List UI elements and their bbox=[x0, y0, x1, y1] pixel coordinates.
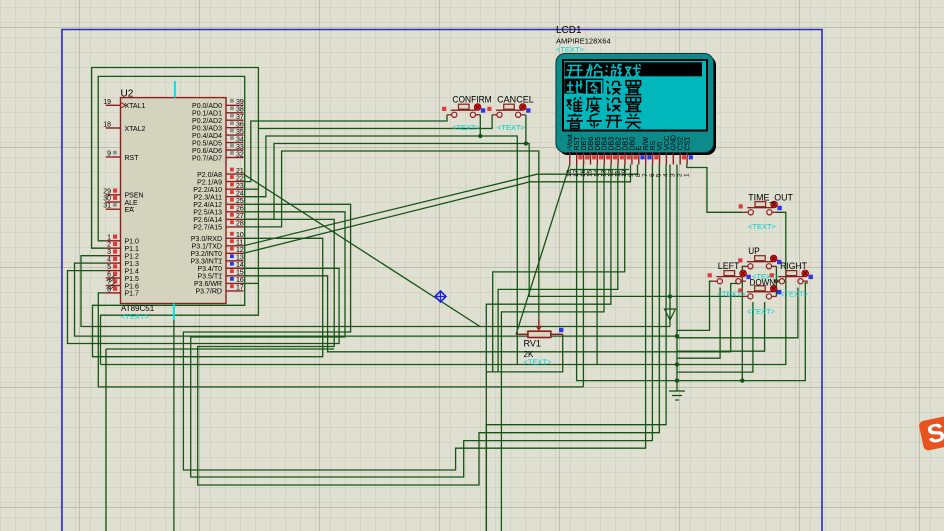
wire filler X2 bbox=[677, 302, 753, 372]
svg-text:9: 9 bbox=[107, 151, 111, 158]
ground symbol bbox=[669, 391, 685, 400]
svg-text:P1.5: P1.5 bbox=[125, 276, 140, 283]
wire LCD RST to RIGHT button bbox=[577, 165, 808, 381]
svg-text:P2.4/A12: P2.4/A12 bbox=[193, 202, 222, 209]
LCD pin 17 RST bbox=[573, 136, 583, 177]
svg-text:11: 11 bbox=[236, 240, 243, 247]
wire LCD DB4 down bbox=[501, 165, 604, 531]
svg-text:17: 17 bbox=[236, 285, 244, 292]
svg-text:P1.1: P1.1 bbox=[125, 246, 140, 253]
svg-text:P3.0/RXD: P3.0/RXD bbox=[191, 236, 222, 243]
svg-text:P2.0/A8: P2.0/A8 bbox=[197, 172, 222, 179]
LCD pin 15 DB6 bbox=[587, 137, 597, 177]
svg-text:P2.7/A15: P2.7/A15 bbox=[193, 225, 222, 232]
wire P2.2 stub jog bbox=[244, 188, 259, 190]
wire LCD DB7 down bbox=[582, 165, 584, 387]
junction RIGHT button terminal bbox=[774, 279, 778, 283]
pin 32 P0.7/AD7 bbox=[192, 151, 244, 162]
svg-text:39: 39 bbox=[236, 99, 244, 106]
svg-text:P0.3/AD3: P0.3/AD3 bbox=[192, 126, 222, 133]
svg-text:29: 29 bbox=[103, 188, 111, 195]
switch CANCEL push button bbox=[487, 95, 534, 133]
svg-text:ALE: ALE bbox=[125, 200, 139, 207]
pin 28 P2.7/A15 bbox=[193, 220, 244, 231]
svg-text:13: 13 bbox=[236, 255, 244, 262]
svg-text:<TEXT>: <TEXT> bbox=[718, 290, 747, 299]
wire P2.6 to DOWN button bbox=[244, 144, 744, 297]
pin 24 P2.3/A11 bbox=[194, 190, 244, 201]
wire LCD DB5 riser bbox=[596, 165, 598, 365]
svg-text:P1.0: P1.0 bbox=[125, 239, 140, 246]
wire P1.3 to ground column bbox=[75, 263, 678, 336]
wire short below LCD bbox=[570, 169, 629, 171]
pin 12 P3.2/INT0 bbox=[190, 247, 243, 258]
pin 26 P2.5/A13 bbox=[193, 205, 244, 216]
LCD pin 4 VCC bbox=[663, 136, 671, 177]
pin 6 P1.5 bbox=[106, 272, 139, 283]
LCD pin 8 E bbox=[635, 146, 645, 178]
svg-text:CS1: CS1 bbox=[685, 137, 692, 151]
pin 3 P1.2 bbox=[106, 249, 139, 260]
svg-text:1: 1 bbox=[683, 173, 690, 177]
LCD pin 12 DB3 bbox=[607, 137, 617, 177]
wire P2.7 to RV1 wiper bbox=[244, 151, 539, 319]
svg-text:P1.6: P1.6 bbox=[125, 283, 140, 290]
LCD pin 1 CS1 bbox=[683, 137, 693, 177]
svg-text:<TEXT>: <TEXT> bbox=[497, 123, 526, 132]
svg-text:38: 38 bbox=[236, 107, 244, 114]
svg-text:P1.2: P1.2 bbox=[125, 254, 140, 261]
svg-text:LCD1: LCD1 bbox=[556, 25, 582, 36]
svg-text:P2.3/A11: P2.3/A11 bbox=[194, 195, 222, 202]
wire from U2 pin20 GND down bbox=[173, 304, 175, 531]
pin 16 P3.6/WR bbox=[194, 277, 244, 288]
switch CONFIRM push button bbox=[442, 95, 492, 133]
pin 23 P2.2/A10 bbox=[193, 183, 244, 194]
LCD pin 16 DB7 bbox=[580, 137, 590, 177]
pin 29 PSEN bbox=[103, 188, 143, 199]
svg-text:31: 31 bbox=[103, 203, 111, 210]
wire horizontal mid bbox=[101, 364, 678, 366]
watermark S logo bbox=[918, 415, 944, 451]
wire RV1 right drop bbox=[486, 334, 562, 372]
wire P3.6 stub jog bbox=[244, 282, 259, 284]
LCD pin 5 V0 bbox=[656, 142, 664, 177]
wire P2.3 drop bbox=[244, 136, 518, 365]
pin 9 RST bbox=[106, 151, 139, 162]
resistor RV1 2K potentiometer bbox=[516, 319, 563, 367]
pin 15 P3.5/T1 bbox=[197, 269, 243, 280]
LCD pin 11 DB2 bbox=[614, 137, 624, 177]
wire filler X3 bbox=[677, 302, 765, 351]
LCD pin 6 RS bbox=[649, 140, 659, 177]
wire LCD DB1 down bbox=[493, 165, 625, 372]
pin 19 XTAL1 bbox=[103, 99, 145, 110]
wire TIME_OUT.R down bbox=[677, 212, 786, 364]
svg-text:22: 22 bbox=[236, 175, 244, 182]
svg-text:TIME_OUT: TIME_OUT bbox=[748, 193, 793, 204]
svg-text:1: 1 bbox=[107, 234, 111, 241]
LCD pin 9 DB0 bbox=[628, 137, 638, 177]
pin 31 EA bbox=[103, 203, 134, 214]
svg-text:P0.7/AD7: P0.7/AD7 bbox=[192, 155, 222, 162]
pin 37 P0.2/AD2 bbox=[192, 114, 244, 125]
switch TIME_OUT push button bbox=[739, 193, 793, 232]
pin 11 P3.1/TXD bbox=[192, 239, 244, 250]
svg-text:6: 6 bbox=[107, 272, 111, 279]
wire P3.2 diagonal to LCD DB0 bbox=[244, 165, 631, 254]
pin 25 P2.4/A12 bbox=[193, 198, 244, 209]
svg-text:P3.5/T1: P3.5/T1 bbox=[197, 274, 222, 281]
wire UP.R to DOWN.R bbox=[775, 266, 777, 296]
switch UP push button bbox=[738, 246, 781, 281]
svg-text:19: 19 bbox=[103, 99, 111, 106]
svg-text:35: 35 bbox=[236, 129, 244, 136]
svg-text:P0.4/AD4: P0.4/AD4 bbox=[192, 133, 222, 140]
svg-text:7: 7 bbox=[107, 279, 111, 286]
svg-text:P3.6/WR: P3.6/WR bbox=[194, 281, 222, 288]
wire LCD CS1 to TIME_OUT bbox=[687, 165, 744, 213]
wire CANCEL.R drop bbox=[525, 115, 527, 144]
LCD LCD1 AMPIRE128X64 bbox=[556, 25, 716, 155]
svg-text:U2: U2 bbox=[121, 88, 134, 99]
svg-text:28: 28 bbox=[236, 221, 244, 228]
svg-text:P0.6/AD6: P0.6/AD6 bbox=[192, 148, 222, 155]
svg-text:4: 4 bbox=[107, 257, 111, 264]
wire P3.1 diagonal to LCD E bbox=[244, 165, 638, 246]
wire P1.2 horizontal to node bbox=[81, 256, 670, 327]
svg-text:16: 16 bbox=[236, 277, 244, 284]
LCD pin 13 DB4 bbox=[601, 137, 611, 177]
svg-text:5: 5 bbox=[107, 264, 111, 271]
pin 35 P0.4/AD4 bbox=[192, 129, 244, 140]
LCD pin 7 R/W bbox=[642, 137, 652, 178]
wire CONFIRM.R drop bbox=[479, 115, 481, 136]
svg-text:RIGHT: RIGHT bbox=[780, 261, 807, 272]
svg-text:DOWN: DOWN bbox=[750, 277, 776, 288]
svg-text:CANCEL: CANCEL bbox=[497, 95, 534, 106]
junction on ground-arrow net bbox=[668, 294, 672, 298]
svg-text:32: 32 bbox=[236, 151, 244, 158]
svg-text:33: 33 bbox=[236, 144, 244, 151]
svg-text:3: 3 bbox=[107, 249, 111, 256]
svg-text:30: 30 bbox=[103, 196, 111, 203]
svg-text:RV1: RV1 bbox=[524, 339, 541, 349]
junction below CANCEL bbox=[524, 141, 528, 145]
pin 18 XTAL2 bbox=[103, 122, 145, 133]
pin 36 P0.3/AD3 bbox=[192, 121, 244, 132]
wire LCD DB3 down bbox=[486, 165, 611, 531]
svg-text:23: 23 bbox=[236, 183, 244, 190]
svg-text:21: 21 bbox=[236, 168, 244, 175]
svg-text:P1.7: P1.7 bbox=[125, 291, 140, 298]
svg-text:37: 37 bbox=[236, 114, 244, 121]
wire filler X1 bbox=[677, 288, 720, 359]
svg-text:<TEXT>: <TEXT> bbox=[747, 307, 776, 316]
wire P2.1 to CONFIRM bbox=[244, 115, 448, 182]
pin 7 P1.6 bbox=[106, 279, 139, 290]
LCD pin 2 CS2 bbox=[676, 137, 686, 177]
svg-text:<TEXT>: <TEXT> bbox=[780, 290, 809, 299]
svg-text:P3.2/INT0: P3.2/INT0 bbox=[190, 251, 222, 258]
wire LCD DB2 down bbox=[498, 165, 618, 372]
pin 21 P2.0/A8 bbox=[197, 168, 244, 179]
pin 34 P0.5/AD5 bbox=[192, 136, 244, 147]
svg-text:P0.2/AD2: P0.2/AD2 bbox=[192, 118, 222, 125]
pin 33 P0.6/AD6 bbox=[192, 144, 244, 155]
wire LEFT.L down bbox=[677, 281, 712, 330]
svg-text:<TEXT>: <TEXT> bbox=[524, 358, 553, 367]
pin 1 P1.0 bbox=[106, 234, 139, 245]
switch DOWN push button bbox=[738, 277, 781, 316]
wire P2.5 to LCD RS bbox=[191, 165, 653, 478]
svg-text:34: 34 bbox=[236, 136, 244, 143]
wire to CANCEL bbox=[258, 115, 492, 129]
svg-text:8: 8 bbox=[107, 286, 111, 293]
wire filler X4 bbox=[677, 288, 798, 338]
pin 8 P1.7 bbox=[106, 286, 139, 297]
switch LEFT push button bbox=[708, 261, 751, 299]
wire P1.1 over top, down right column bbox=[92, 68, 259, 365]
pin 38 P0.1/AD1 bbox=[192, 106, 244, 117]
wire LCD -Vout diagonal to RV1 bbox=[516, 165, 570, 335]
svg-text:P2.2/A10: P2.2/A10 bbox=[193, 187, 222, 194]
svg-text:18: 18 bbox=[103, 122, 111, 129]
wire UP.L down bbox=[741, 266, 744, 380]
svg-text:RST: RST bbox=[125, 155, 140, 162]
LCD pin 3 GND bbox=[670, 135, 678, 177]
svg-text:P0.1/AD1: P0.1/AD1 bbox=[192, 111, 222, 118]
wire GND pin column with power arrow bbox=[669, 165, 671, 327]
svg-text:P0.0/AD0: P0.0/AD0 bbox=[192, 103, 222, 110]
wire left bottom vertical bbox=[106, 349, 334, 531]
pin 17 P3.7/RD bbox=[196, 284, 244, 295]
svg-text:24: 24 bbox=[236, 191, 244, 198]
sheet border bbox=[62, 30, 822, 531]
svg-text:P1.3: P1.3 bbox=[125, 261, 140, 268]
pin 5 P1.4 bbox=[106, 264, 139, 275]
LCD pin 14 DB5 bbox=[594, 137, 604, 177]
wire P2.6 to LCD V0 bbox=[198, 165, 660, 486]
pin 27 P2.6/A14 bbox=[193, 213, 244, 224]
node marker blue diamond bbox=[435, 291, 446, 302]
wire LEFT.R via staircase to P3.5 bbox=[244, 276, 739, 352]
svg-text:EA: EA bbox=[125, 207, 135, 214]
wire P2.4 to LCD R/W bbox=[183, 165, 645, 471]
junction ground column upper bbox=[675, 334, 679, 338]
microcontroller U2 AT89C51 bbox=[121, 81, 227, 321]
svg-text:2: 2 bbox=[107, 242, 111, 249]
svg-text:P2.6/A14: P2.6/A14 bbox=[193, 217, 222, 224]
svg-text:25: 25 bbox=[236, 198, 244, 205]
svg-text:<TEXT>: <TEXT> bbox=[748, 222, 777, 231]
svg-text:XTAL2: XTAL2 bbox=[125, 126, 146, 133]
svg-text:12: 12 bbox=[236, 247, 244, 254]
svg-text:36: 36 bbox=[236, 122, 244, 129]
pin 4 P1.3 bbox=[106, 257, 139, 268]
wire P1.4 to P3.4 via staircase bbox=[68, 268, 340, 343]
svg-text:UP: UP bbox=[748, 246, 760, 257]
svg-text:<TEXT>: <TEXT> bbox=[556, 45, 585, 54]
pin 39 P0.0/AD0 bbox=[192, 99, 244, 110]
pin 2 P1.1 bbox=[106, 242, 139, 253]
svg-text:15: 15 bbox=[236, 270, 244, 277]
svg-text:P3.4/T0: P3.4/T0 bbox=[197, 266, 222, 273]
pin 14 P3.4/T0 bbox=[197, 262, 243, 273]
svg-text:PSEN: PSEN bbox=[125, 193, 144, 200]
junction ground column mid bbox=[675, 362, 679, 366]
pin 22 P2.1/A9 bbox=[197, 175, 244, 186]
switch RIGHT push button bbox=[770, 261, 813, 299]
svg-text:P3.1/TXD: P3.1/TXD bbox=[192, 244, 222, 251]
wire ground column bbox=[676, 165, 678, 392]
svg-text:26: 26 bbox=[236, 206, 244, 213]
wire LCD VCC down bbox=[486, 165, 666, 531]
svg-text:10: 10 bbox=[236, 232, 244, 239]
svg-text:<TEXT>: <TEXT> bbox=[452, 123, 481, 132]
wire P2.0 diagonal bbox=[244, 174, 481, 326]
svg-text:P2.1/A9: P2.1/A9 bbox=[197, 179, 222, 186]
power-down arrow terminal bbox=[665, 303, 676, 320]
svg-text:P3.3/INT1: P3.3/INT1 bbox=[190, 259, 222, 266]
svg-text:P1.4: P1.4 bbox=[125, 268, 140, 275]
pin 30 ALE bbox=[103, 196, 138, 207]
svg-text:XTAL1: XTAL1 bbox=[125, 103, 146, 110]
pin 13 P3.3/INT1 bbox=[190, 254, 243, 265]
svg-text:14: 14 bbox=[236, 262, 244, 269]
LCD screen menu text bbox=[564, 64, 641, 129]
svg-text:P0.5/AD5: P0.5/AD5 bbox=[192, 140, 222, 147]
svg-text:<TEXT>: <TEXT> bbox=[121, 312, 150, 321]
wire P1.0 over top, down right column bbox=[93, 76, 323, 356]
junction UP button column bbox=[740, 378, 744, 382]
pin 10 P3.0/RXD bbox=[191, 232, 244, 243]
junction below CONFIRM bbox=[478, 134, 482, 138]
svg-text:LEFT: LEFT bbox=[718, 261, 740, 272]
svg-text:P2.5/A13: P2.5/A13 bbox=[193, 210, 222, 217]
junction ground column lower bbox=[675, 378, 679, 382]
LCD pin 10 DB1 bbox=[621, 137, 631, 177]
svg-text:CONFIRM: CONFIRM bbox=[452, 95, 491, 106]
wire P1.7 to bottom bus bbox=[98, 293, 583, 387]
LCD pin 18 -Vout bbox=[566, 134, 574, 177]
svg-text:27: 27 bbox=[236, 213, 244, 220]
svg-text:P3.7/RD: P3.7/RD bbox=[196, 289, 222, 296]
